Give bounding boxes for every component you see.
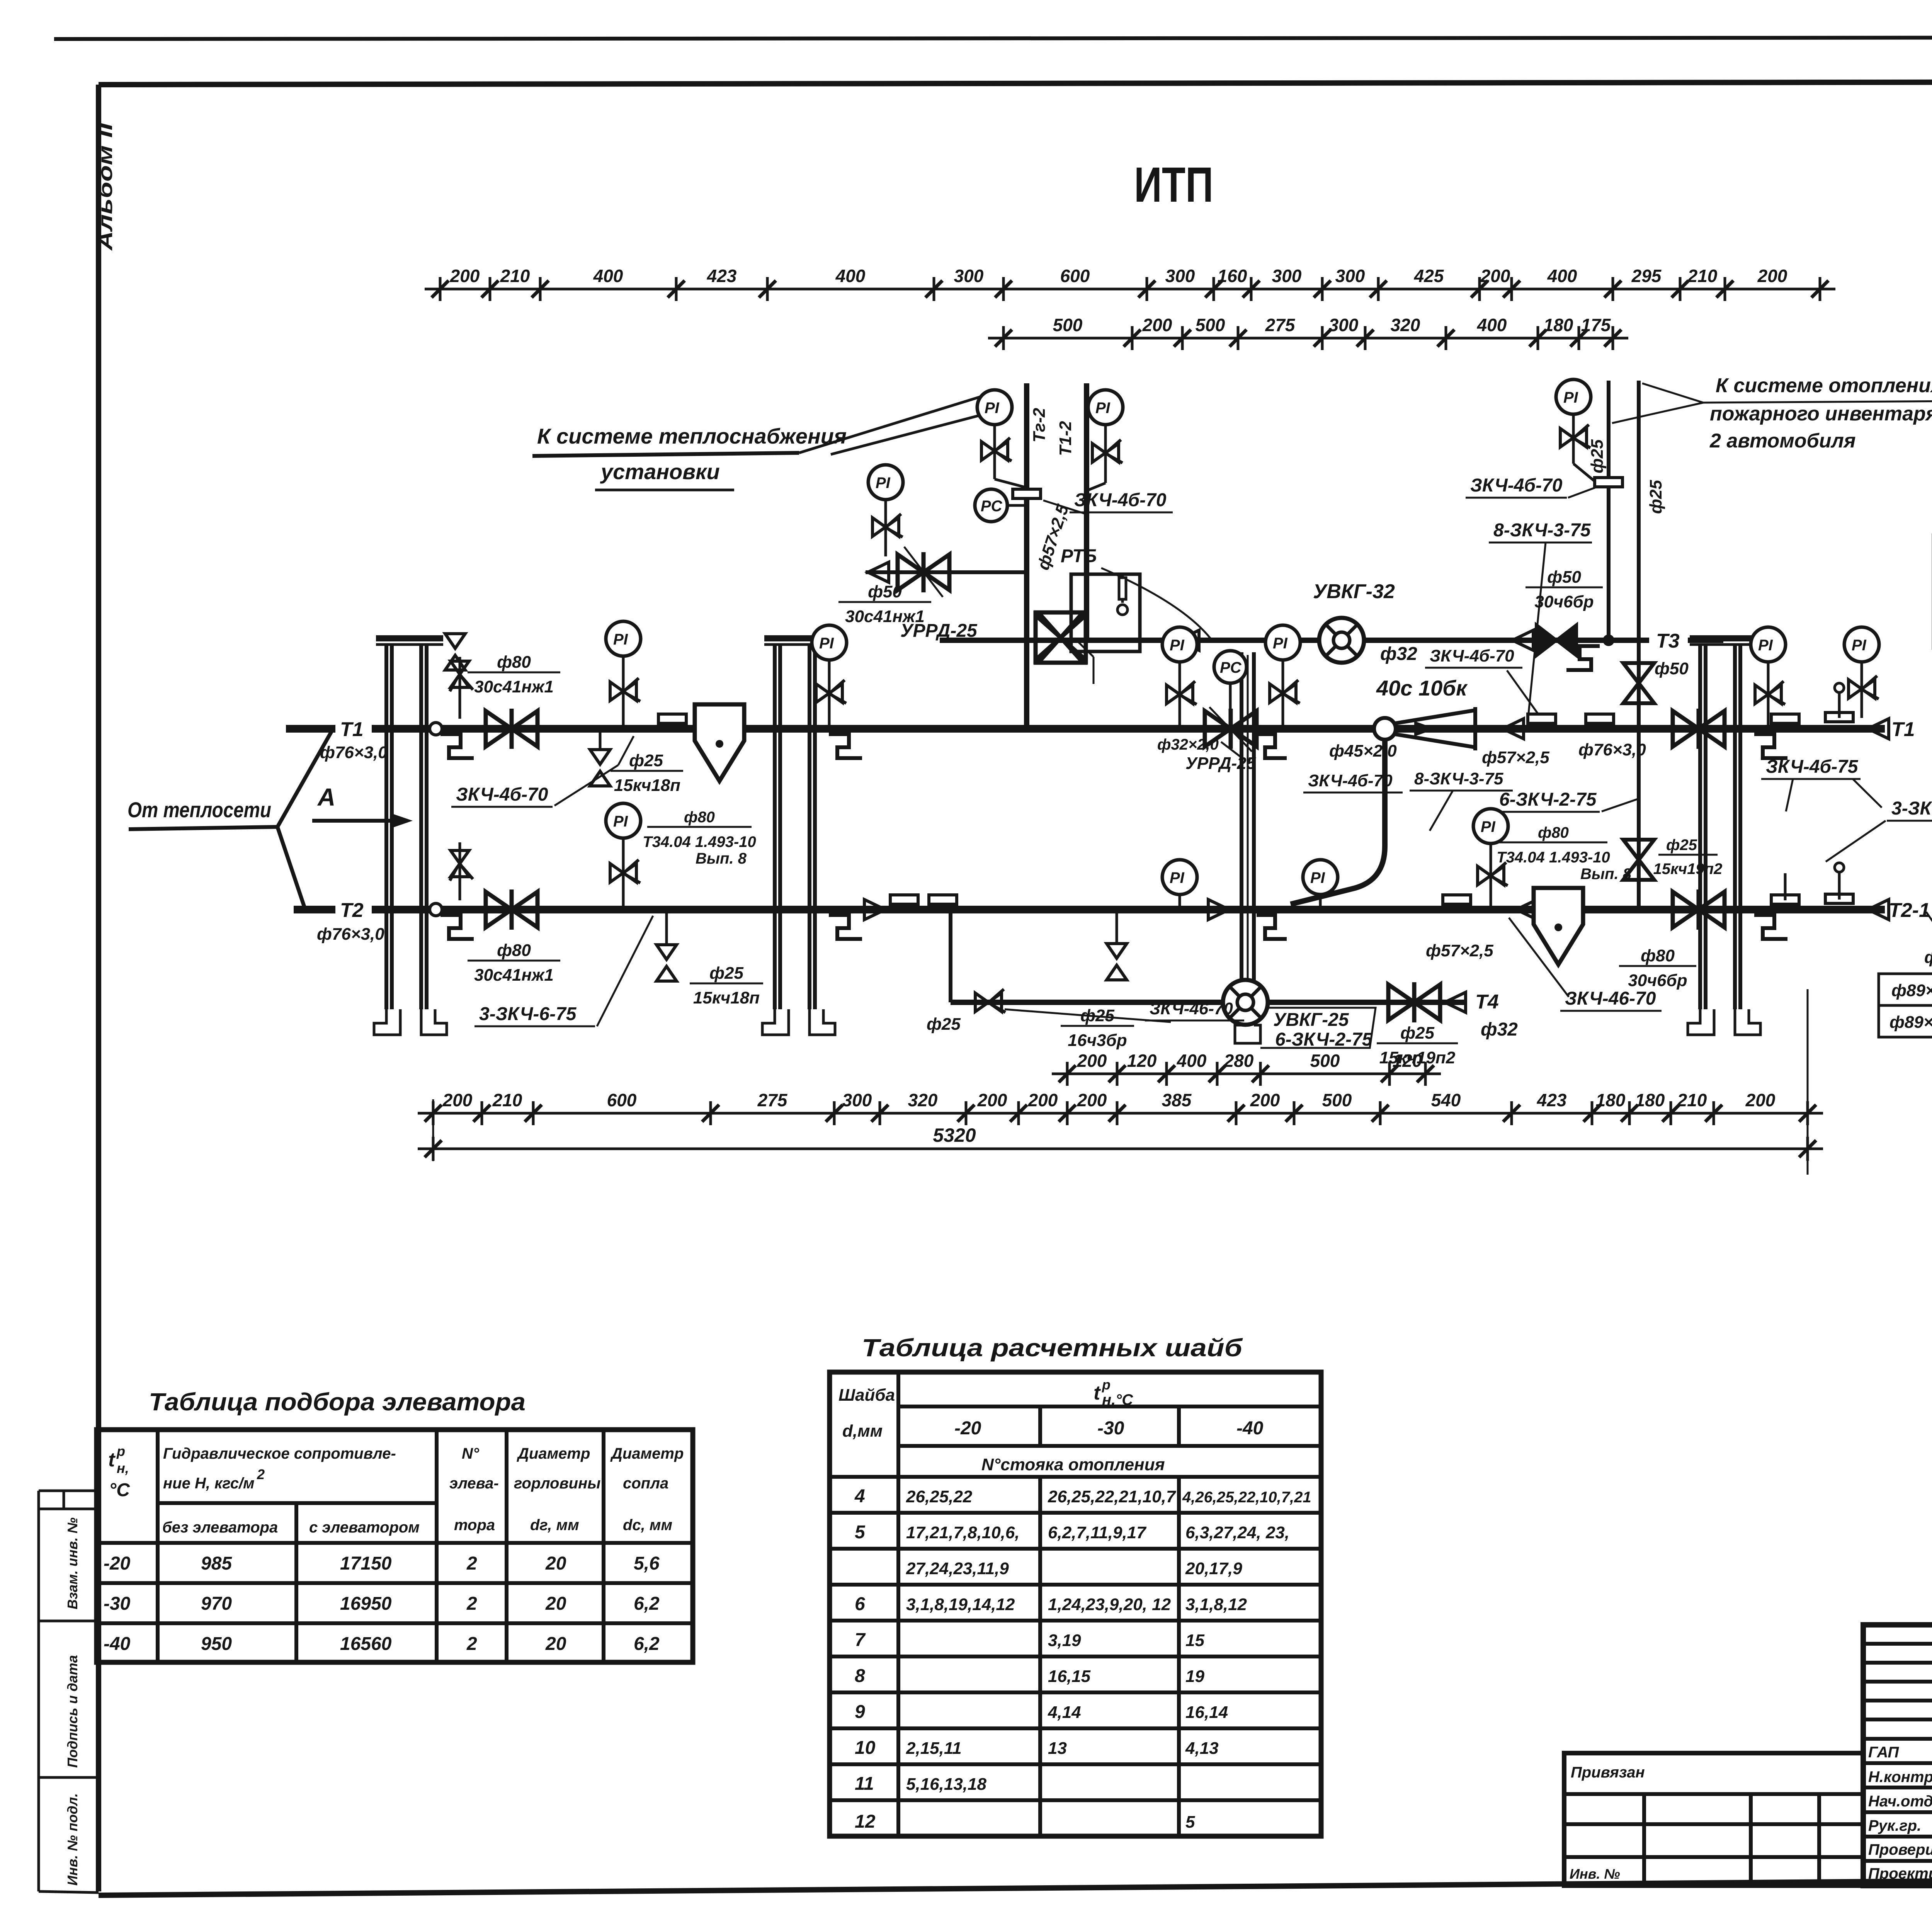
stem valve bbox=[872, 514, 903, 537]
svg-text:15кч18п: 15кч18п bbox=[614, 776, 680, 795]
box f89x3.0 stack bbox=[1879, 974, 1932, 1005]
label box UVKG-25 / 6-ZKCh-2-75 bbox=[1260, 1008, 1376, 1048]
svg-text:Проверил: Проверил bbox=[1868, 1841, 1932, 1858]
svg-text:ЗКЧ-4б-70: ЗКЧ-4б-70 bbox=[1430, 646, 1514, 665]
svg-text:ф89×3,0: ф89×3,0 bbox=[1891, 981, 1932, 1000]
svg-text:ф76×3,0: ф76×3,0 bbox=[317, 925, 384, 944]
dimension chain bottom small bbox=[1052, 1051, 1441, 1086]
gauge stem bbox=[1179, 895, 1181, 910]
svg-text:6-ЗКЧ-2-75: 6-ЗКЧ-2-75 bbox=[1275, 1029, 1373, 1050]
svg-text:27,24,23,11,9: 27,24,23,11,9 bbox=[906, 1559, 1009, 1578]
svg-text:2: 2 bbox=[466, 1594, 477, 1614]
svg-text:423: 423 bbox=[1537, 1090, 1567, 1110]
svg-text:200: 200 bbox=[977, 1090, 1007, 1110]
svg-text:30с41нж1: 30с41нж1 bbox=[474, 677, 554, 696]
svg-text:ЗКЧ-4б-70: ЗКЧ-4б-70 bbox=[1470, 475, 1563, 496]
svg-text:200: 200 bbox=[450, 266, 480, 286]
svg-text:970: 970 bbox=[201, 1594, 232, 1614]
valve URRD-25 bbox=[898, 552, 949, 592]
svg-text:6-ЗКЧ-2-75: 6-ЗКЧ-2-75 bbox=[1499, 789, 1597, 810]
svg-text:Гидравлическое сопротивле-: Гидравлическое сопротивле- bbox=[163, 1445, 396, 1462]
wall section right bbox=[1688, 635, 1760, 1035]
inner frame left bbox=[96, 85, 101, 1891]
pipe sleeve bracket T1 mid wall bbox=[829, 734, 862, 758]
svg-text:Альбом II: Альбом II bbox=[94, 122, 117, 252]
valve T4 right bbox=[1388, 982, 1440, 1022]
svg-text:t: t bbox=[108, 1449, 116, 1471]
outer border top bbox=[54, 37, 1932, 39]
svg-text:Инв. № подл.: Инв. № подл. bbox=[65, 1793, 80, 1886]
svg-text:ЗКЧ-46-70: ЗКЧ-46-70 bbox=[1150, 999, 1233, 1018]
riser T1-2 bbox=[1084, 383, 1089, 640]
svg-text:ф50: ф50 bbox=[1547, 568, 1581, 587]
svg-text:275: 275 bbox=[757, 1090, 788, 1110]
dimension total 5320 bbox=[418, 1124, 1823, 1161]
svg-text:3-ЗКЧ-6-75: 3-ЗКЧ-6-75 bbox=[1891, 798, 1932, 819]
tee pad T2 right bbox=[1771, 895, 1799, 904]
svg-text:17150: 17150 bbox=[340, 1553, 392, 1574]
svg-text:20: 20 bbox=[545, 1553, 566, 1574]
svg-text:элева-: элева- bbox=[449, 1475, 499, 1492]
svg-text:2: 2 bbox=[466, 1634, 477, 1654]
svg-text:Рук.гр.: Рук.гр. bbox=[1868, 1817, 1921, 1834]
svg-text:17,21,7,8,10,6,: 17,21,7,8,10,6, bbox=[906, 1523, 1020, 1542]
svg-text:16,14: 16,14 bbox=[1185, 1703, 1228, 1722]
riser connect Tg-2 bbox=[995, 479, 1027, 488]
svg-text:ф50: ф50 bbox=[868, 582, 902, 601]
svg-text:5320: 5320 bbox=[933, 1124, 976, 1146]
pipe sleeve bracket T1 right wall bbox=[1754, 734, 1787, 758]
svg-text:Привязан: Привязан bbox=[1571, 1764, 1645, 1781]
leader f76 label bbox=[1926, 912, 1932, 946]
vent valve above T2 left wall bbox=[459, 842, 461, 900]
svg-text:4,14: 4,14 bbox=[1048, 1703, 1081, 1722]
svg-text:175: 175 bbox=[1581, 315, 1611, 335]
svg-text:-30: -30 bbox=[104, 1594, 131, 1614]
svg-text:180: 180 bbox=[1596, 1090, 1626, 1110]
svg-text:ф80: ф80 bbox=[1538, 824, 1569, 841]
junction T1 wall circle bbox=[430, 723, 442, 735]
gauge PI T1 before URRD bbox=[1162, 627, 1197, 662]
svg-text:А: А bbox=[317, 783, 335, 811]
flow arrow T4 bbox=[1445, 992, 1466, 1012]
svg-text:Т4: Т4 bbox=[1475, 991, 1499, 1013]
svg-text:dс, мм: dс, мм bbox=[623, 1517, 672, 1534]
gauge stem bbox=[1767, 662, 1770, 729]
svg-text:без элеватора: без элеватора bbox=[162, 1519, 278, 1536]
svg-text:13: 13 bbox=[1048, 1739, 1067, 1758]
branch line URRD-25 bbox=[866, 570, 1027, 574]
svg-text:16ч3бр: 16ч3бр bbox=[1068, 1031, 1127, 1050]
svg-text:ЗКЧ-46-70: ЗКЧ-46-70 bbox=[1565, 988, 1656, 1009]
svg-text:320: 320 bbox=[1391, 315, 1420, 335]
gauge PI T1 after URRD bbox=[1265, 625, 1300, 660]
svg-text:985: 985 bbox=[201, 1553, 232, 1574]
svg-text:с элеватором: с элеватором bbox=[309, 1519, 420, 1536]
svg-text:5,6: 5,6 bbox=[634, 1553, 660, 1574]
wire: supply fork upper bbox=[277, 729, 333, 827]
riser T2 to T4 bbox=[949, 910, 952, 1002]
pipe T2 return main bbox=[294, 906, 335, 913]
pipe sleeve bracket T1 left wall bbox=[440, 734, 474, 758]
svg-text:385: 385 bbox=[1162, 1090, 1192, 1110]
svg-text:5: 5 bbox=[1185, 1813, 1195, 1832]
svg-text:7: 7 bbox=[855, 1630, 866, 1650]
svg-text:ЗКЧ-4б-70: ЗКЧ-4б-70 bbox=[1308, 771, 1393, 790]
svg-text:УВКГ-32: УВКГ-32 bbox=[1313, 580, 1395, 603]
gate valve T1 right 30ch6br bbox=[1673, 709, 1725, 749]
svg-text:200: 200 bbox=[1142, 315, 1172, 335]
svg-text:3,19: 3,19 bbox=[1048, 1631, 1081, 1650]
svg-text:РТБ: РТБ bbox=[1061, 546, 1097, 566]
wall section left bbox=[374, 635, 447, 1035]
svg-text:ф80: ф80 bbox=[497, 941, 531, 960]
svg-text:120: 120 bbox=[1127, 1051, 1157, 1071]
leader ZKCh-46-70 T4 left bbox=[1005, 1009, 1171, 1022]
svg-text:-40: -40 bbox=[1236, 1418, 1264, 1439]
svg-text:4: 4 bbox=[854, 1486, 865, 1507]
svg-text:ф57×2,5: ф57×2,5 bbox=[1426, 941, 1493, 960]
flow arrow T2 mid bbox=[1516, 900, 1537, 920]
svg-text:2: 2 bbox=[257, 1466, 265, 1482]
svg-text:6,3,27,24, 23,: 6,3,27,24, 23, bbox=[1185, 1523, 1289, 1542]
wall column middle-right bbox=[1235, 652, 1287, 1043]
svg-text:Проектир.: Проектир. bbox=[1868, 1865, 1932, 1882]
svg-text:ф89× 3,0: ф89× 3,0 bbox=[1889, 1013, 1932, 1032]
svg-text:400: 400 bbox=[1177, 1051, 1207, 1071]
washers table grid bbox=[830, 1372, 1321, 1836]
svg-text:210: 210 bbox=[500, 266, 530, 286]
svg-text:40с 10бк: 40с 10бк bbox=[1376, 676, 1468, 700]
svg-text:N°: N° bbox=[462, 1445, 480, 1462]
svg-text:295: 295 bbox=[1631, 266, 1662, 286]
witness line right bbox=[1807, 989, 1809, 1175]
svg-text:Диаметр: Диаметр bbox=[517, 1445, 590, 1462]
flow arrow T2 end bbox=[1868, 900, 1889, 920]
title block grid bbox=[1863, 1625, 1932, 1886]
svg-text:Взам. инв. №: Взам. инв. № bbox=[65, 1517, 80, 1609]
svg-text:ние Н, кгс/м: ние Н, кгс/м bbox=[163, 1475, 255, 1492]
svg-text:200: 200 bbox=[1480, 266, 1510, 286]
gauge stem bbox=[828, 660, 831, 729]
stem valve bbox=[1849, 676, 1879, 699]
svg-text:400: 400 bbox=[835, 266, 866, 286]
svg-text:Вып. 8: Вып. 8 bbox=[696, 850, 747, 867]
svg-text:ф32: ф32 bbox=[1380, 644, 1417, 664]
svg-text:400: 400 bbox=[593, 266, 623, 286]
vent valve above T1 left wall bbox=[459, 657, 461, 719]
drain stack T2 mid bbox=[1116, 910, 1118, 943]
PC stem to riser bbox=[1007, 504, 1027, 507]
RTB regulator box bbox=[1071, 574, 1140, 651]
svg-text:-40: -40 bbox=[104, 1634, 131, 1654]
svg-text:540: 540 bbox=[1431, 1090, 1461, 1110]
svg-text:400: 400 bbox=[1477, 315, 1507, 335]
svg-text:6: 6 bbox=[855, 1594, 865, 1614]
attachment block left of title block bbox=[1564, 1753, 1863, 1886]
stem valve bbox=[1092, 440, 1122, 463]
svg-text:2 автомобиля: 2 автомобиля bbox=[1709, 430, 1855, 452]
svg-text:Т1: Т1 bbox=[340, 718, 364, 741]
stem valve bbox=[1478, 862, 1508, 886]
svg-text:3-ЗКЧ-6-75: 3-ЗКЧ-6-75 bbox=[479, 1004, 577, 1024]
svg-text:200: 200 bbox=[1028, 1090, 1058, 1110]
svg-text:сопла: сопла bbox=[623, 1475, 668, 1492]
svg-text:210: 210 bbox=[1677, 1090, 1707, 1110]
svg-text:15кч18п: 15кч18п bbox=[693, 988, 760, 1007]
svg-text:30ч6бр: 30ч6бр bbox=[1534, 592, 1594, 611]
gauge stem bbox=[1282, 660, 1284, 729]
svg-text:300: 300 bbox=[1165, 266, 1195, 286]
drain below T2 with f25/15kch18p bbox=[665, 910, 668, 944]
gauge PI T1 far right bbox=[1844, 627, 1879, 662]
svg-text:Таблица подбора элеватора: Таблица подбора элеватора bbox=[149, 1388, 526, 1416]
svg-text:3,1,8,12: 3,1,8,12 bbox=[1185, 1595, 1247, 1614]
flow arrow T2 at wall bbox=[1208, 900, 1229, 920]
svg-text:ф76×3,0: ф76×3,0 bbox=[1578, 740, 1646, 759]
svg-text:Т34.04 1.493-10: Т34.04 1.493-10 bbox=[643, 833, 756, 850]
svg-text:ф25: ф25 bbox=[1588, 439, 1607, 473]
stem valve bbox=[1755, 681, 1785, 704]
pipe sleeve bracket T2 right wall bbox=[1754, 915, 1787, 939]
gauge PI T1 left bbox=[606, 621, 641, 656]
svg-text:ГАП: ГАП bbox=[1868, 1744, 1899, 1761]
svg-text:Диаметр: Диаметр bbox=[610, 1445, 684, 1462]
svg-text:р: р bbox=[116, 1443, 125, 1459]
flow arrow T3 right bbox=[1512, 630, 1533, 650]
svg-text:16,15: 16,15 bbox=[1048, 1667, 1091, 1686]
svg-text:15кч19п2: 15кч19п2 bbox=[1653, 861, 1723, 878]
svg-text:-30: -30 bbox=[1097, 1418, 1124, 1439]
stem T2 right tee2 bbox=[1838, 871, 1841, 900]
tee pad T2 mid bbox=[890, 895, 918, 904]
svg-text:ф25: ф25 bbox=[709, 964, 743, 983]
svg-text:8-ЗКЧ-3-75: 8-ЗКЧ-3-75 bbox=[1493, 520, 1591, 541]
svg-text:4,26,25,22,10,7,21: 4,26,25,22,10,7,21 bbox=[1182, 1489, 1311, 1506]
gauge stem bbox=[884, 500, 887, 556]
pipe T1 supply main bbox=[286, 725, 335, 733]
svg-text:500: 500 bbox=[1196, 315, 1225, 335]
svg-text:5,16,13,18: 5,16,13,18 bbox=[906, 1775, 986, 1794]
valve T3 right bbox=[1536, 625, 1577, 656]
gauge PI T2 left bbox=[606, 803, 641, 838]
tee pad T1 right bbox=[1771, 714, 1799, 723]
svg-text:УВКГ-25: УВКГ-25 bbox=[1273, 1010, 1349, 1030]
riser f25 a bbox=[1607, 381, 1611, 640]
gauge PI T2 left-mid bbox=[1162, 860, 1197, 895]
svg-text:Т1: Т1 bbox=[1891, 718, 1915, 741]
svg-text:500: 500 bbox=[1322, 1090, 1352, 1110]
stem valve bbox=[816, 680, 846, 703]
svg-text:t: t bbox=[1094, 1382, 1101, 1404]
svg-text:н,°С: н,°С bbox=[1102, 1391, 1133, 1408]
svg-text:600: 600 bbox=[607, 1090, 637, 1110]
svg-text:200: 200 bbox=[442, 1090, 473, 1110]
stem T2 right tee bbox=[1784, 873, 1787, 900]
svg-text:ф25: ф25 bbox=[629, 751, 663, 770]
pipe sleeve bracket T2 left wall bbox=[440, 915, 474, 939]
svg-text:20: 20 bbox=[545, 1634, 566, 1654]
svg-text:Т1-2: Т1-2 bbox=[1056, 421, 1075, 456]
svg-text:ф32×2,0: ф32×2,0 bbox=[1157, 736, 1219, 753]
svg-text:500: 500 bbox=[1310, 1051, 1340, 1071]
gauge PI T2 mid bbox=[1473, 809, 1508, 844]
svg-text:26,25,22: 26,25,22 bbox=[906, 1487, 973, 1506]
svg-text:12: 12 bbox=[855, 1811, 876, 1832]
tee pad on riser Tg-2 bbox=[1013, 489, 1041, 498]
flow mark T2 bbox=[864, 900, 885, 920]
svg-text:20,17,9: 20,17,9 bbox=[1185, 1559, 1242, 1578]
stem valve bbox=[1270, 680, 1300, 703]
svg-text:8-ЗКЧ-3-75: 8-ЗКЧ-3-75 bbox=[1414, 769, 1503, 788]
svg-text:N°стояка отопления: N°стояка отопления bbox=[981, 1455, 1165, 1474]
svg-text:ЗКЧ-4б-75: ЗКЧ-4б-75 bbox=[1766, 757, 1859, 777]
svg-text:15: 15 bbox=[1185, 1631, 1204, 1650]
svg-text:-20: -20 bbox=[954, 1418, 981, 1439]
svg-text:2: 2 bbox=[466, 1553, 477, 1574]
svg-text:160: 160 bbox=[1218, 266, 1247, 286]
svg-text:2,15,11: 2,15,11 bbox=[906, 1739, 962, 1758]
svg-text:275: 275 bbox=[1265, 315, 1296, 335]
svg-text:5: 5 bbox=[855, 1522, 866, 1543]
svg-text:dг, мм: dг, мм bbox=[530, 1517, 579, 1534]
stem valve bbox=[1560, 425, 1590, 448]
stem elbow bbox=[1573, 464, 1598, 484]
tee cap riser a bbox=[1595, 478, 1622, 487]
svg-text:6,2,7,11,9,17: 6,2,7,11,9,17 bbox=[1048, 1523, 1147, 1542]
stem T1 right tee bbox=[1838, 692, 1841, 718]
tee pad T2 mid2 bbox=[929, 895, 957, 904]
svg-text:пожарного инвентаря и обору: пожарного инвентаря и оборудования для п… bbox=[1710, 403, 1932, 425]
svg-text:500: 500 bbox=[1053, 315, 1083, 335]
leader fork to risers bbox=[1642, 383, 1703, 403]
svg-text:950: 950 bbox=[201, 1634, 232, 1654]
svg-text:300: 300 bbox=[842, 1090, 872, 1110]
inner frame top bbox=[99, 81, 1932, 85]
flow arrow in elevator bbox=[1414, 721, 1436, 736]
dimension chain bottom main bbox=[418, 1090, 1823, 1125]
svg-text:300: 300 bbox=[1329, 315, 1359, 335]
RTB leader curve bbox=[1101, 568, 1211, 639]
svg-text:19: 19 bbox=[1185, 1667, 1204, 1686]
svg-text:30ч6бр: 30ч6бр bbox=[1628, 971, 1687, 990]
stem valve bbox=[610, 860, 640, 883]
svg-text:тора: тора bbox=[454, 1517, 495, 1534]
svg-text:200: 200 bbox=[1077, 1051, 1107, 1071]
svg-text:ф76×3,0: ф76×3,0 bbox=[320, 743, 388, 762]
svg-text:Таблица расчетных шайб: Таблица расчетных шайб bbox=[862, 1334, 1243, 1362]
svg-text:11: 11 bbox=[855, 1774, 874, 1794]
tee pad T2 bbox=[1443, 895, 1471, 904]
gauge PI riser Tg-2 bbox=[977, 390, 1012, 425]
leader to risers bbox=[799, 396, 981, 453]
junction T2 wall circle bbox=[430, 903, 442, 916]
mud filter T2 bbox=[1534, 888, 1583, 964]
svg-text:15кч19п2: 15кч19п2 bbox=[1379, 1048, 1456, 1067]
inner frame bottom bbox=[99, 1875, 1932, 1895]
tee pad T1 at filter bbox=[658, 714, 686, 723]
svg-text:ф80: ф80 bbox=[1641, 946, 1675, 965]
svg-text:К системе отопления отдельно: К системе отопления отдельно стоящего за… bbox=[1716, 374, 1932, 397]
UVKG-32 mixer middle bbox=[1319, 618, 1364, 663]
svg-text:300: 300 bbox=[1272, 266, 1302, 286]
gauge stem bbox=[1104, 425, 1107, 483]
dimension chain top row 1 bbox=[425, 266, 1835, 301]
gauge PI T1 mid-wall bbox=[812, 625, 847, 660]
svg-text:425: 425 bbox=[1414, 266, 1444, 286]
svg-text:ИТП: ИТП bbox=[1134, 157, 1213, 213]
gauge PI URRD branch bbox=[868, 465, 903, 500]
gauge stem bbox=[1861, 662, 1863, 718]
elevator table grid bbox=[97, 1430, 693, 1662]
wall section middle bbox=[762, 635, 835, 1035]
gate valve T1 left 30c41nzh1 bbox=[486, 709, 537, 749]
svg-text:ф32: ф32 bbox=[1481, 1019, 1518, 1040]
pipe T3 bbox=[940, 638, 1649, 643]
svg-text:Вып. 8: Вып. 8 bbox=[1580, 866, 1632, 883]
svg-text:180: 180 bbox=[1635, 1090, 1665, 1110]
gauge PI riser f25 bbox=[1556, 379, 1591, 414]
tee pad T1 mid2 bbox=[1586, 714, 1614, 723]
stem valve bbox=[1167, 681, 1197, 704]
svg-text:10: 10 bbox=[855, 1738, 876, 1758]
svg-text:Т3: Т3 bbox=[1656, 630, 1680, 652]
valve URRD-25 on T1 bbox=[1205, 709, 1257, 749]
small valve T4 left bbox=[975, 989, 1005, 1012]
svg-text:16950: 16950 bbox=[340, 1594, 392, 1614]
svg-text:280: 280 bbox=[1224, 1051, 1254, 1071]
wire: supply fork lower bbox=[277, 827, 305, 910]
svg-text:Нач.отд.: Нач.отд. bbox=[1868, 1793, 1932, 1810]
svg-text:ф80: ф80 bbox=[497, 653, 531, 672]
PC stem bbox=[1229, 683, 1232, 717]
svg-text:Т2-1: Т2-1 bbox=[1889, 899, 1930, 922]
stem elbow to T1-2 bbox=[1087, 483, 1105, 491]
svg-text:Тг-2: Тг-2 bbox=[1030, 408, 1049, 442]
UVKG-25 mixer T4 bbox=[1223, 980, 1268, 1025]
svg-text:УРРД-25: УРРД-25 bbox=[1185, 754, 1256, 773]
svg-text:-20: -20 bbox=[104, 1553, 131, 1574]
svg-text:320: 320 bbox=[908, 1090, 938, 1110]
svg-text:ЗКЧ-4б-70: ЗКЧ-4б-70 bbox=[1074, 490, 1167, 510]
svg-text:ф50: ф50 bbox=[1655, 659, 1689, 678]
gauge stem bbox=[1179, 662, 1181, 729]
svg-text:Т34.04 1.493-10: Т34.04 1.493-10 bbox=[1497, 849, 1610, 866]
riser f25 b bbox=[1637, 381, 1641, 729]
svg-text:600: 600 bbox=[1060, 266, 1090, 286]
svg-text:ф25: ф25 bbox=[1646, 480, 1665, 514]
svg-text:200: 200 bbox=[1250, 1090, 1280, 1110]
svg-text:°С: °С bbox=[109, 1480, 130, 1500]
svg-text:ф57×2,5: ф57×2,5 bbox=[1482, 748, 1549, 767]
svg-text:установки: установки bbox=[600, 459, 720, 484]
svg-text:300: 300 bbox=[954, 266, 984, 286]
left margin strip bbox=[39, 1491, 99, 1893]
flow arrow T1 mid bbox=[1503, 719, 1524, 739]
gauge PI T1 right bbox=[1751, 627, 1786, 662]
pipe T4 bbox=[951, 1000, 1466, 1005]
tee pad T1 right 2 bbox=[1825, 713, 1853, 722]
flow arrow T3 left bbox=[1178, 630, 1199, 650]
riser Tg-2 bbox=[1024, 383, 1029, 729]
svg-text:423: 423 bbox=[707, 266, 737, 286]
svg-text:16560: 16560 bbox=[340, 1634, 392, 1654]
stem valve bbox=[610, 678, 640, 701]
mud filter T1 bbox=[695, 704, 744, 781]
svg-text:1,24,23,9,20, 12: 1,24,23,9,20, 12 bbox=[1048, 1595, 1171, 1614]
svg-text:Шайба: Шайба bbox=[838, 1386, 895, 1405]
svg-text:200: 200 bbox=[1745, 1090, 1776, 1110]
